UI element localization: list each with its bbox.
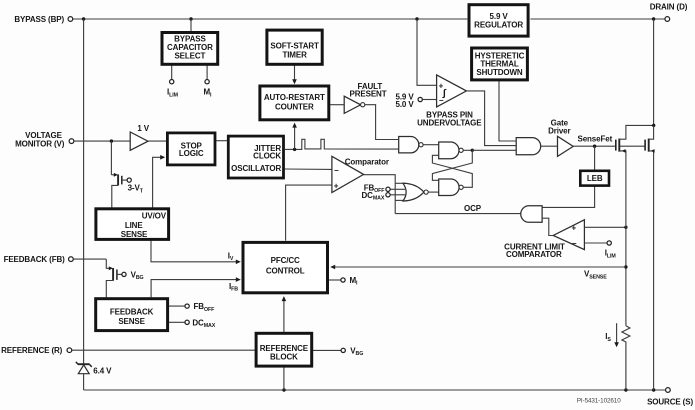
svg-text:+: + — [334, 182, 339, 191]
svg-text:TIMER: TIMER — [282, 50, 307, 59]
svg-text:COMPARATOR: COMPARATOR — [506, 250, 562, 259]
svg-text:6.4 V: 6.4 V — [93, 367, 112, 376]
svg-text:DRAIN (D): DRAIN (D) — [650, 2, 688, 11]
svg-text:REFERENCE (R): REFERENCE (R) — [1, 346, 63, 355]
svg-text:PRESENT: PRESENT — [350, 90, 387, 99]
svg-text:Comparator: Comparator — [345, 157, 389, 166]
svg-text:BLOCK: BLOCK — [270, 353, 298, 362]
svg-text:LEB: LEB — [587, 174, 603, 183]
svg-text:OCP: OCP — [464, 204, 482, 213]
svg-text:5.0 V: 5.0 V — [396, 100, 415, 109]
svg-text:REFERENCE: REFERENCE — [260, 344, 309, 353]
svg-text:CONTROL: CONTROL — [266, 266, 305, 275]
svg-text:SELECT: SELECT — [174, 52, 205, 61]
svg-text:AUTO-RESTART: AUTO-RESTART — [264, 93, 325, 102]
svg-text:REGULATOR: REGULATOR — [474, 21, 523, 30]
svg-text:−: − — [572, 239, 577, 248]
svg-text:MONITOR (V): MONITOR (V) — [15, 139, 65, 148]
svg-text:UV/OV: UV/OV — [142, 211, 167, 220]
svg-text:LOGIC: LOGIC — [179, 149, 204, 158]
svg-text:SOURCE (S): SOURCE (S) — [647, 397, 693, 406]
svg-text:COUNTER: COUNTER — [275, 103, 314, 112]
svg-text:+: + — [572, 223, 577, 232]
svg-text:CLOCK: CLOCK — [253, 152, 281, 161]
svg-text:1 V: 1 V — [137, 124, 149, 133]
svg-text:FEEDBACK (FB): FEEDBACK (FB) — [4, 255, 66, 264]
svg-text:SenseFet: SenseFet — [578, 134, 613, 143]
svg-text:BYPASS (BP): BYPASS (BP) — [14, 15, 64, 24]
svg-text:FEEDBACK: FEEDBACK — [110, 307, 154, 316]
svg-text:PI-5431-102610: PI-5431-102610 — [577, 398, 621, 405]
svg-text:LINE: LINE — [125, 221, 144, 230]
svg-text:SENSE: SENSE — [121, 230, 148, 239]
svg-text:SENSE: SENSE — [118, 317, 145, 326]
svg-text:UNDERVOLTAGE: UNDERVOLTAGE — [417, 119, 482, 128]
svg-text:OSCILLATOR: OSCILLATOR — [231, 164, 281, 173]
svg-text:−: − — [334, 166, 339, 175]
svg-text:PFC/CC: PFC/CC — [271, 256, 300, 265]
svg-text:SHUTDOWN: SHUTDOWN — [476, 68, 522, 77]
svg-text:Driver: Driver — [548, 126, 570, 135]
